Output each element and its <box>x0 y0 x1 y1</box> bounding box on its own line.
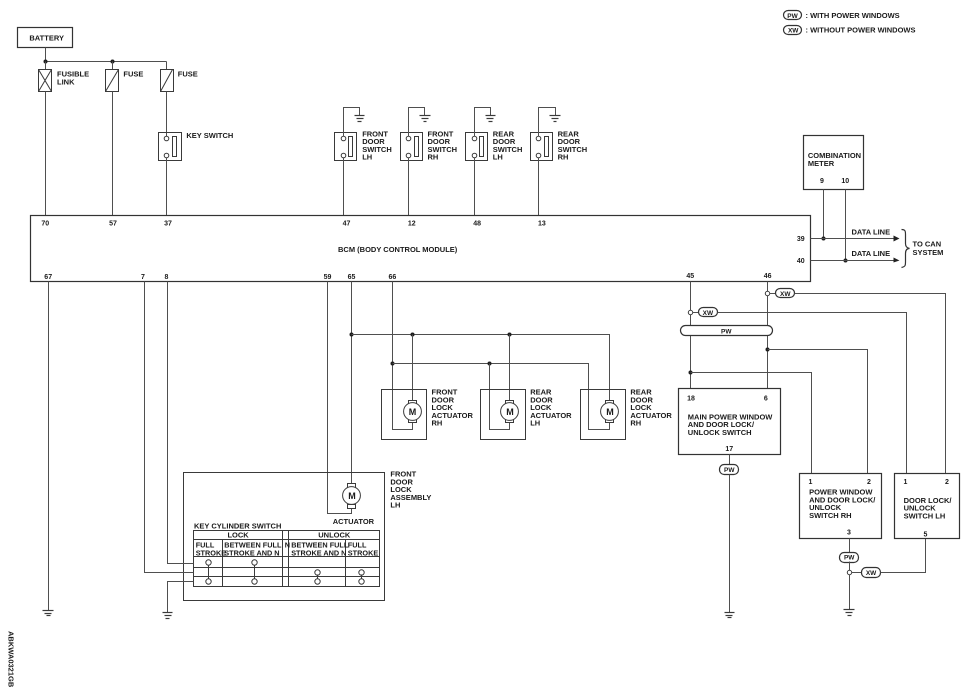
svg-text:45: 45 <box>686 273 694 280</box>
key cylinder contact full-stroke lock <box>206 560 211 584</box>
combination meter U2 <box>804 136 864 190</box>
svg-text:M: M <box>409 407 417 417</box>
svg-text:KEY CYLINDER SWITCH: KEY CYLINDER SWITCH <box>194 521 281 530</box>
svg-text:40: 40 <box>797 258 805 265</box>
svg-text:PW: PW <box>787 13 798 20</box>
junction battery bus <box>44 60 48 64</box>
svg-text:59: 59 <box>324 274 332 281</box>
wire lock bus to front actuator RH motor <box>412 335 414 401</box>
junction pin 45 branch to PW switch RH pin 1 <box>689 371 693 375</box>
front door switch RH <box>401 129 458 161</box>
wire data line 2 (BCM pin 40 to CAN) <box>811 260 894 262</box>
fuse F2 <box>161 62 198 92</box>
svg-text:RH: RH <box>630 419 641 428</box>
motor M (assembly actuator) <box>333 484 375 527</box>
wire front door switch LH to BCM pin 47 <box>343 158 345 216</box>
svg-text:LINK: LINK <box>57 78 75 87</box>
svg-text:8: 8 <box>165 274 169 281</box>
svg-text:67: 67 <box>44 274 52 281</box>
svg-text:RH: RH <box>428 153 439 162</box>
wire XW branch pin 46 to door lock switch LH pin 2 <box>795 294 946 474</box>
svg-text:47: 47 <box>343 221 351 228</box>
key cylinder contact between-unlock <box>315 570 320 584</box>
wire PW tag pin 17 to ground <box>729 475 731 613</box>
wire meter pin 9 to data line <box>823 190 825 239</box>
junction fuse bus <box>111 60 115 64</box>
svg-text:: WITHOUT POWER WINDOWS: : WITHOUT POWER WINDOWS <box>806 26 916 35</box>
front door lock assembly LH box <box>184 470 432 601</box>
rear door lock actuator LH <box>481 388 573 440</box>
node connector circle on pin 46 wire <box>765 291 769 295</box>
svg-text:46: 46 <box>764 273 772 280</box>
ground BCM pin 67 <box>43 611 54 616</box>
svg-text:17: 17 <box>725 446 733 453</box>
wire BCM pin 59 to assembly actuator motor low side <box>328 282 352 514</box>
svg-text:LH: LH <box>493 153 503 162</box>
svg-text:DATA LINE: DATA LINE <box>852 249 891 258</box>
motor M (front actuator RH) <box>404 401 422 423</box>
wire fusible link to BCM pin 70 <box>45 92 47 216</box>
svg-text:UNLOCK SWITCH: UNLOCK SWITCH <box>688 428 752 437</box>
svg-text:XW: XW <box>703 310 714 317</box>
motor M (rear actuator RH) <box>601 401 619 423</box>
wire XW tag to door lock switch LH pin 5 <box>881 539 926 573</box>
svg-text:KEY SWITCH: KEY SWITCH <box>186 131 233 140</box>
svg-text:XW: XW <box>866 570 877 577</box>
svg-text:39: 39 <box>797 236 805 243</box>
rear door switch LH <box>466 129 523 161</box>
junction meter data line 1 <box>822 237 826 241</box>
wire key switch to BCM pin 37 <box>166 158 168 216</box>
svg-text:FUSE: FUSE <box>178 70 198 79</box>
svg-text:XW: XW <box>780 291 791 298</box>
svg-text:STROKE: STROKE <box>348 548 379 557</box>
wire front door switch LH to ground <box>344 108 360 137</box>
svg-text:: WITH POWER WINDOWS: : WITH POWER WINDOWS <box>806 11 900 20</box>
svg-text:UNLOCK: UNLOCK <box>318 531 351 540</box>
wire BCM pin 46 down to main switch pin 6 <box>767 282 769 389</box>
wire key cylinder common row to ground <box>168 582 194 613</box>
svg-text:66: 66 <box>389 274 397 281</box>
node connector circle pin 3 <box>847 570 851 574</box>
battery B1 <box>18 28 73 48</box>
svg-text:STROKE AND N: STROKE AND N <box>224 548 279 557</box>
key cylinder contact between-lock <box>252 560 257 584</box>
wire pin 3 node to ground <box>849 575 851 610</box>
main power window and door lock/unlock switch U3 <box>679 389 781 455</box>
rear door lock actuator RH <box>581 388 673 440</box>
svg-text:LOCK: LOCK <box>227 531 249 540</box>
svg-text:2: 2 <box>945 479 949 486</box>
svg-text:STROKE: STROKE <box>196 548 227 557</box>
wire switch RH pin 3 to PW tag <box>849 539 851 553</box>
svg-text:SWITCH RH: SWITCH RH <box>809 511 852 520</box>
svg-text:RH: RH <box>432 419 443 428</box>
svg-text:LH: LH <box>530 419 540 428</box>
connector tag XW (pin 3 branch) <box>852 568 881 578</box>
wire BCM pin 45 down to main switch pin 18 <box>690 282 692 389</box>
svg-text:BATTERY: BATTERY <box>29 34 64 43</box>
svg-text:LH: LH <box>362 153 372 162</box>
svg-text:70: 70 <box>41 221 49 228</box>
svg-text:PW: PW <box>724 467 735 474</box>
key switch S1 <box>159 131 234 161</box>
svg-text:9: 9 <box>820 178 824 185</box>
svg-text:13: 13 <box>538 221 546 228</box>
svg-text:LH: LH <box>390 501 400 510</box>
svg-text:3: 3 <box>847 530 851 537</box>
wire rear door switch LH to BCM pin 48 <box>474 158 476 216</box>
svg-text:M: M <box>348 491 356 501</box>
svg-text:ABKWA0321GB: ABKWA0321GB <box>7 631 16 688</box>
connector tag XW (pin 45 branch) <box>693 308 718 317</box>
svg-text:37: 37 <box>164 221 172 228</box>
ground rear door switch RH <box>550 116 561 122</box>
ground front door switch LH <box>355 116 365 122</box>
wire front door switch RH to ground <box>409 108 425 137</box>
svg-text:BCM (BODY CONTROL MODULE): BCM (BODY CONTROL MODULE) <box>338 245 458 254</box>
connector tag PW (wide, on pins 45/46 wires) <box>681 326 773 336</box>
svg-text:PW: PW <box>844 555 855 562</box>
wire front door switch RH to BCM pin 12 <box>408 158 410 216</box>
wire pin 46 to power window switch RH pin 2 <box>768 350 868 474</box>
svg-text:M: M <box>506 407 514 417</box>
svg-text:XW: XW <box>788 28 799 35</box>
front door lock actuator RH <box>382 388 474 440</box>
svg-text:RH: RH <box>558 153 569 162</box>
wire XW branch pin 45 to door lock switch LH pin 1 <box>718 313 907 474</box>
ground rear door switch LH <box>486 116 496 122</box>
svg-text:6: 6 <box>764 396 768 403</box>
legend tag PW <box>784 11 900 20</box>
wire BCM pin 65 to assembly actuator motor <box>351 282 353 484</box>
svg-text:N: N <box>285 540 290 549</box>
connector tag XW (pin 46 branch) <box>770 289 795 299</box>
wire lock bus <box>352 335 610 401</box>
wire meter pin 10 to data line <box>845 190 847 261</box>
wire BCM pin 7 to key cylinder unlock row <box>145 282 194 573</box>
svg-text:DATA LINE: DATA LINE <box>852 228 891 237</box>
svg-text:65: 65 <box>348 274 356 281</box>
ground front door switch RH <box>420 116 431 122</box>
svg-text:TO CAN: TO CAN <box>913 240 942 249</box>
wire unlock bus <box>393 364 610 430</box>
ground switch RH pin 3 <box>844 610 855 616</box>
wire lock bus to rear actuator LH motor <box>509 335 511 401</box>
motor M (rear actuator LH) <box>501 401 519 423</box>
svg-text:1: 1 <box>903 479 907 486</box>
wire fuse F1 to BCM pin 57 <box>112 92 114 216</box>
svg-text:METER: METER <box>808 159 835 168</box>
svg-text:STROKE AND N: STROKE AND N <box>291 548 346 557</box>
svg-text:SYSTEM: SYSTEM <box>913 248 944 257</box>
key cylinder contact full-stroke unlock <box>359 570 364 584</box>
wire data line 1 (BCM pin 39 to CAN) <box>811 238 894 240</box>
junction lock bus actuator 2 <box>508 333 512 337</box>
wire fuse bus <box>46 61 167 63</box>
wire rear door switch RH to BCM pin 13 <box>538 158 540 216</box>
svg-text:5: 5 <box>923 532 927 539</box>
svg-text:57: 57 <box>109 221 117 228</box>
ground main switch pin 17 <box>725 613 735 618</box>
wire rear door switch RH to ground <box>539 108 556 137</box>
front door switch LH <box>335 129 392 161</box>
svg-text:12: 12 <box>408 221 416 228</box>
connector tag PW (pin 17) <box>720 465 739 475</box>
junction lock bus actuator 1 <box>411 333 415 337</box>
connector tag PW (pin 3) <box>840 553 859 563</box>
svg-text:M: M <box>606 407 614 417</box>
wire BCM pin 8 to key cylinder lock row <box>168 282 194 564</box>
svg-text:PW: PW <box>721 329 732 336</box>
svg-text:ACTUATOR: ACTUATOR <box>333 517 375 526</box>
junction unlock bus actuator 2 <box>488 362 492 366</box>
wire pin 45 to power window switch RH pin 1 <box>691 373 812 474</box>
rear door switch RH <box>531 129 588 161</box>
wire rear door switch LH to ground <box>475 108 491 137</box>
svg-text:SWITCH LH: SWITCH LH <box>904 511 946 520</box>
wire main switch pin 17 to PW tag <box>729 455 731 465</box>
wire BCM pin 67 to ground <box>48 282 50 611</box>
fusible link FL <box>39 62 90 92</box>
wire fuse F2 to key switch <box>166 92 168 137</box>
legend tag XW <box>784 26 916 35</box>
junction meter data line 2 <box>844 259 848 263</box>
fuse F1 <box>106 62 144 92</box>
junction pin 46 branch to PW switch RH pin 2 <box>766 348 770 352</box>
BCM U1 (body control module) <box>31 216 811 282</box>
brace to CAN system <box>902 230 944 268</box>
junction unlock bus (pin 66) <box>391 362 395 366</box>
wire battery to fuse bus <box>45 48 47 62</box>
svg-text:10: 10 <box>841 178 849 185</box>
wire unlock bus to rear actuator LH motor low side <box>490 364 510 430</box>
power window and door lock/unlock switch RH U4 <box>800 474 882 539</box>
node connector circle on pin 45 wire <box>688 310 692 314</box>
svg-text:1: 1 <box>808 479 812 486</box>
svg-text:2: 2 <box>867 479 871 486</box>
svg-text:48: 48 <box>473 221 481 228</box>
svg-text:18: 18 <box>687 396 695 403</box>
svg-text:FUSE: FUSE <box>123 70 143 79</box>
wire BCM pin 66 to front actuator RH motor low side <box>393 282 413 430</box>
ground key cylinder switch <box>163 613 173 619</box>
wire PW tag to connector node <box>849 562 851 571</box>
key cylinder switch table <box>194 521 380 586</box>
door lock/unlock switch LH U5 <box>895 474 960 539</box>
svg-text:7: 7 <box>141 274 145 281</box>
junction bus lock (pin 65) <box>350 333 354 337</box>
